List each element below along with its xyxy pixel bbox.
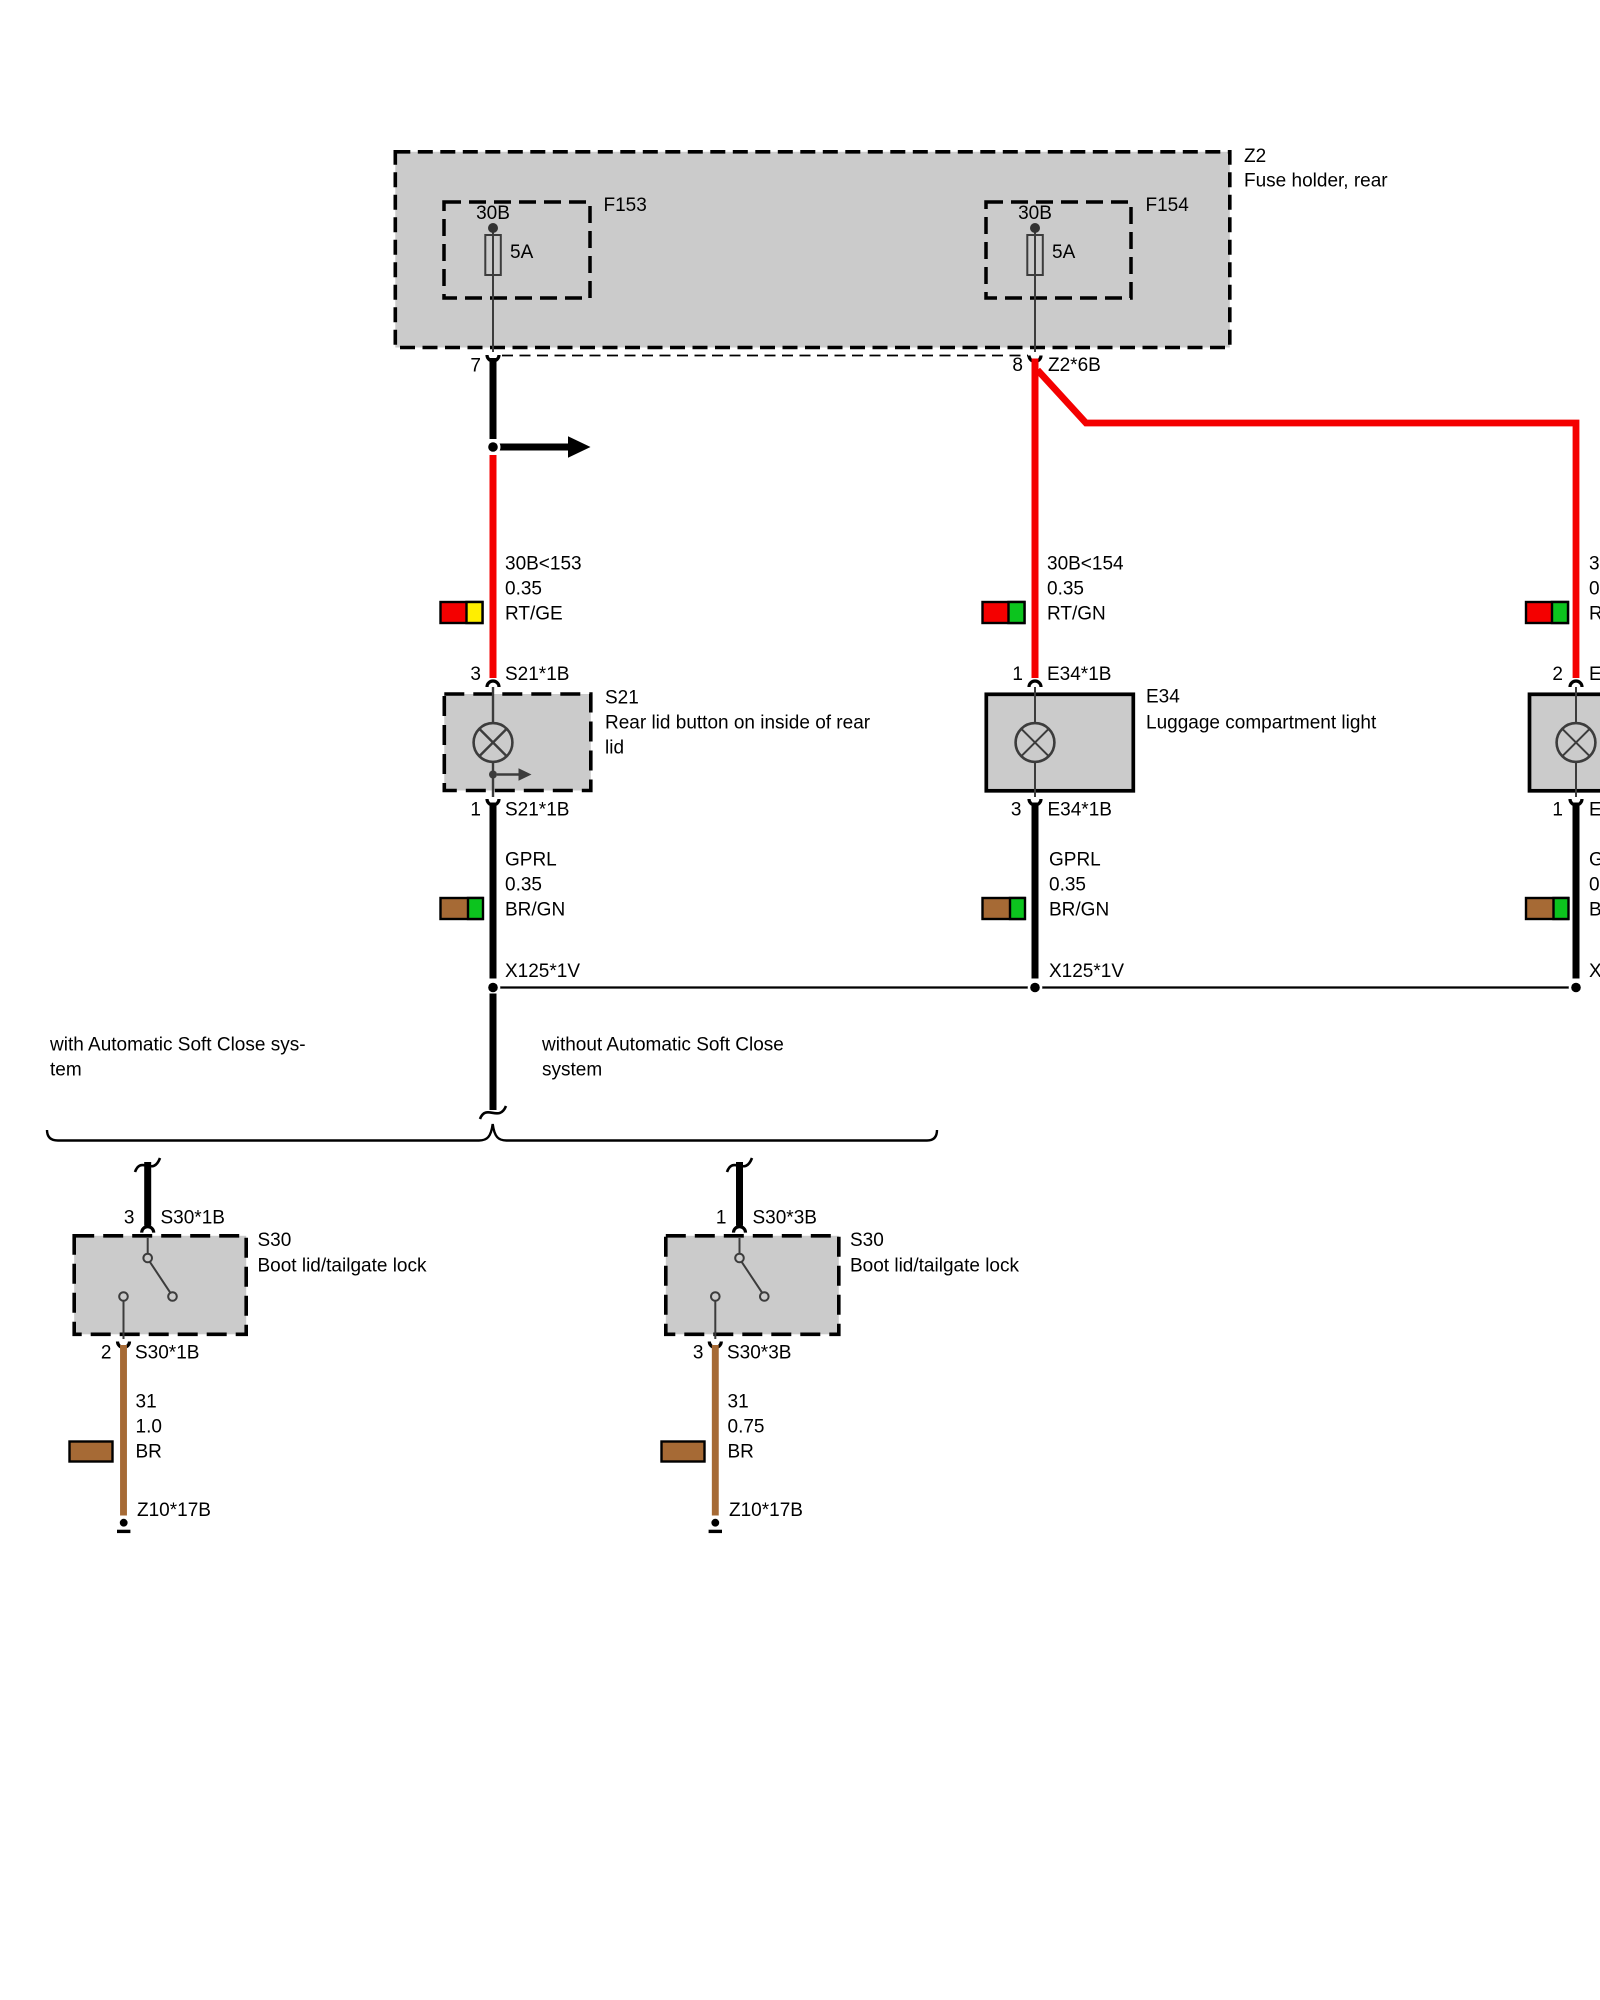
svg-text:3: 3 [470, 664, 481, 685]
svg-text:31: 31 [136, 1392, 157, 1413]
svg-text:0.35: 0.35 [505, 579, 542, 600]
svg-text:GPRL: GPRL [1049, 850, 1101, 871]
svg-text:2: 2 [1552, 664, 1563, 685]
svg-text:BR/GN: BR/GN [1049, 900, 1109, 921]
svg-text:X125*1V: X125*1V [1589, 961, 1600, 982]
svg-text:S30: S30 [850, 1230, 884, 1251]
svg-text:Z10*17B: Z10*17B [729, 1500, 803, 1521]
svg-text:E34*1B: E34*1B [1047, 664, 1111, 685]
svg-text:30B: 30B [476, 203, 510, 224]
svg-text:3: 3 [693, 1343, 704, 1364]
svg-text:S30*3B: S30*3B [727, 1343, 791, 1364]
svg-text:X125*1V: X125*1V [1049, 961, 1124, 982]
svg-text:F153: F153 [604, 195, 647, 216]
svg-text:0.35: 0.35 [505, 875, 542, 896]
svg-text:RT/GN: RT/GN [1047, 604, 1106, 625]
svg-text:30B<153: 30B<153 [505, 554, 582, 575]
svg-text:8: 8 [1012, 355, 1023, 376]
svg-text:tem: tem [50, 1060, 82, 1081]
svg-text:5A: 5A [510, 242, 534, 263]
svg-text:0.35: 0.35 [1589, 875, 1600, 896]
svg-text:BR: BR [728, 1442, 754, 1463]
svg-text:31: 31 [728, 1392, 749, 1413]
svg-text:S21: S21 [605, 688, 639, 709]
svg-text:3: 3 [1011, 800, 1022, 821]
svg-text:S30*1B: S30*1B [161, 1208, 225, 1229]
svg-text:Z10*17B: Z10*17B [137, 1500, 211, 1521]
svg-text:GPRL: GPRL [1589, 850, 1600, 871]
svg-text:0.35: 0.35 [1049, 875, 1086, 896]
svg-text:with Automatic Soft Close sys-: with Automatic Soft Close sys- [49, 1035, 306, 1056]
svg-text:S21*1B: S21*1B [505, 800, 569, 821]
svg-text:Boot lid/tailgate lock: Boot lid/tailgate lock [258, 1256, 427, 1277]
svg-text:3: 3 [124, 1208, 135, 1229]
svg-text:S30*3B: S30*3B [753, 1208, 817, 1229]
svg-text:system: system [542, 1060, 602, 1081]
svg-text:30B<154: 30B<154 [1047, 554, 1124, 575]
svg-text:F154: F154 [1146, 195, 1190, 216]
svg-text:E34*1B: E34*1B [1048, 800, 1112, 821]
svg-text:BR: BR [136, 1442, 162, 1463]
svg-text:RT/GE: RT/GE [505, 604, 563, 625]
svg-text:1: 1 [1012, 664, 1023, 685]
svg-text:0.35: 0.35 [1589, 579, 1600, 600]
svg-text:X125*1V: X125*1V [505, 961, 580, 982]
svg-text:5A: 5A [1052, 242, 1076, 263]
svg-text:Rear lid button on inside of r: Rear lid button on inside of rear [605, 713, 871, 734]
svg-text:GPRL: GPRL [505, 850, 557, 871]
svg-text:1: 1 [716, 1208, 727, 1229]
svg-text:S30: S30 [258, 1230, 292, 1251]
svg-text:1: 1 [470, 800, 481, 821]
svg-text:S21*1B: S21*1B [505, 664, 569, 685]
svg-text:0.75: 0.75 [728, 1417, 765, 1438]
svg-text:30B<155: 30B<155 [1589, 554, 1600, 575]
svg-text:1: 1 [1552, 800, 1563, 821]
svg-text:Z2: Z2 [1244, 146, 1266, 167]
svg-text:E34*1B: E34*1B [1589, 800, 1600, 821]
svg-text:E34: E34 [1146, 687, 1180, 708]
svg-text:lid: lid [605, 738, 624, 759]
svg-text:S30*1B: S30*1B [135, 1343, 199, 1364]
svg-text:30B: 30B [1018, 203, 1052, 224]
svg-text:without Automatic Soft Close: without Automatic Soft Close [541, 1035, 784, 1056]
svg-text:BR/GN: BR/GN [1589, 900, 1600, 921]
svg-text:0.35: 0.35 [1047, 579, 1084, 600]
svg-text:7: 7 [470, 356, 481, 377]
svg-text:Fuse holder, rear: Fuse holder, rear [1244, 171, 1388, 192]
svg-text:Luggage compartment light: Luggage compartment light [1146, 713, 1377, 734]
svg-text:1.0: 1.0 [136, 1417, 162, 1438]
svg-text:BR/GN: BR/GN [505, 900, 565, 921]
svg-text:RT/GE: RT/GE [1589, 604, 1600, 625]
svg-text:Boot lid/tailgate lock: Boot lid/tailgate lock [850, 1256, 1019, 1277]
svg-text:Z2*6B: Z2*6B [1048, 355, 1101, 376]
svg-text:E34*1B: E34*1B [1589, 664, 1600, 685]
svg-text:2: 2 [101, 1343, 112, 1364]
